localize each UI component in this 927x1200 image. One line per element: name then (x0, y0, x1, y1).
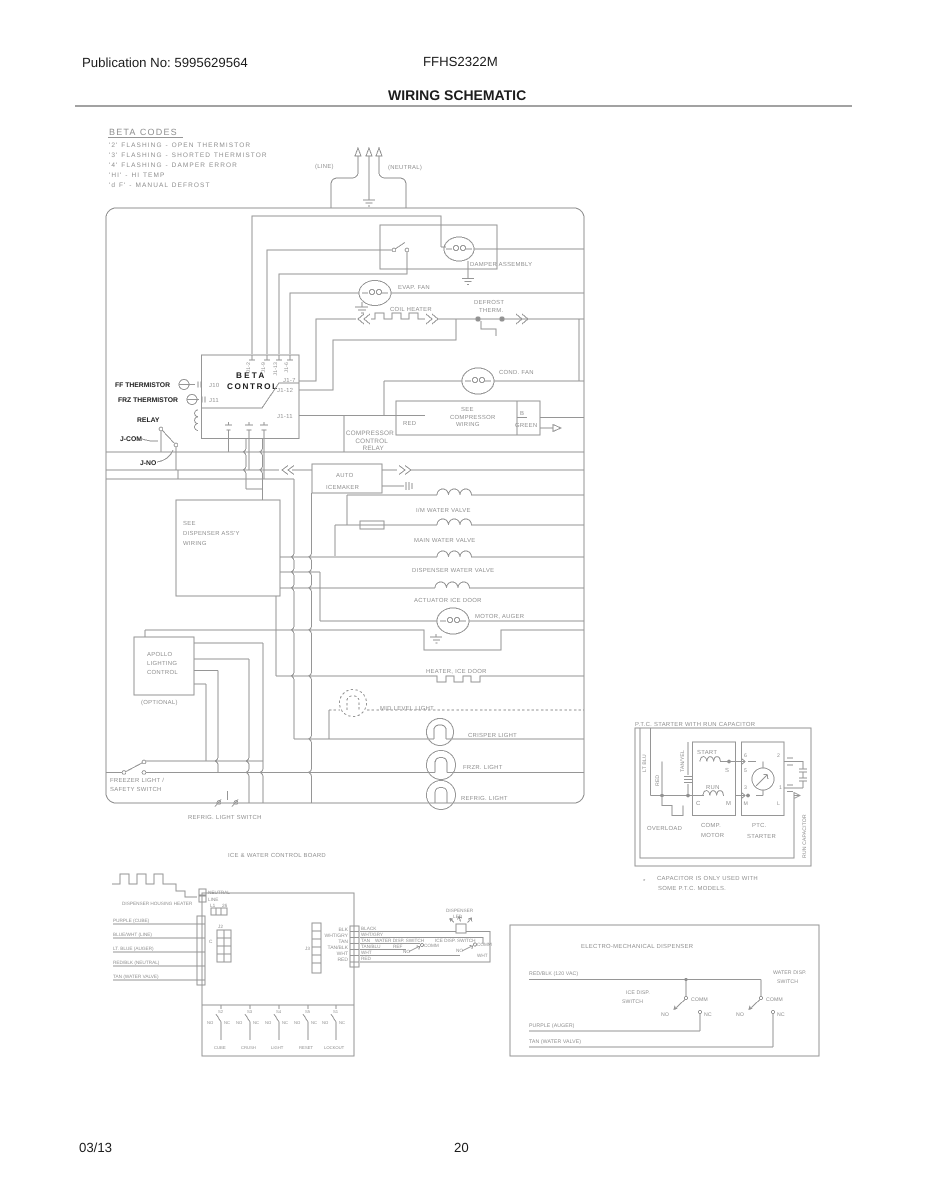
svg-text:NC: NC (777, 1012, 785, 1018)
wire wht (360, 955, 460, 957)
svg-text:NO: NO (294, 1020, 301, 1025)
svg-text:MAIN WATER VALVE: MAIN WATER VALVE (414, 537, 476, 544)
svg-text:ICE DISP. SWITCH: ICE DISP. SWITCH (435, 938, 476, 943)
pin J1-9 (264, 355, 270, 360)
svg-text:*: * (643, 878, 646, 885)
svg-text:COND. FAN: COND. FAN (499, 369, 534, 376)
connector chevrons left of heater (358, 314, 370, 324)
svg-text:SEE: SEE (461, 406, 474, 413)
ground auger (430, 634, 442, 643)
svg-text:LED: LED (453, 914, 463, 919)
wire apollo top feed (144, 630, 146, 637)
svg-text:COMM: COMM (477, 942, 492, 947)
svg-text:PURPLE (CUBE): PURPLE (CUBE) (113, 918, 150, 923)
bus x294 with hops (290, 479, 295, 739)
svg-text:STARTER: STARTER (747, 833, 776, 840)
bus x311 with hops (307, 493, 312, 803)
neutral terminal (199, 889, 206, 895)
svg-text:B: B (520, 410, 524, 417)
cond fan motor (462, 368, 494, 394)
svg-text:P.T.C. STARTER WITH RUN CAPACI: P.T.C. STARTER WITH RUN CAPACITOR (635, 721, 755, 728)
junction dot (684, 978, 687, 981)
wire ptc to cap top (784, 758, 803, 769)
ice disp switch S10 (674, 996, 702, 1013)
svg-text:RUN CAPACITOR: RUN CAPACITOR (802, 814, 808, 858)
svg-text:COMP.: COMP. (701, 822, 721, 829)
freezer light safety switch S6 (106, 760, 146, 774)
wire purple (529, 1014, 700, 1032)
svg-text:NO: NO (322, 1020, 329, 1025)
svg-text:LT. BLUE (AUGER): LT. BLUE (AUGER) (113, 946, 154, 951)
svg-text:LIGHT: LIGHT (271, 1045, 284, 1050)
svg-text:ICEMAKER: ICEMAKER (326, 484, 359, 491)
svg-text:MOTOR, AUGER: MOTOR, AUGER (475, 613, 524, 620)
connector strip J3 mid (312, 923, 321, 973)
svg-text:S5: S5 (305, 1009, 311, 1014)
wire purple (113, 923, 198, 925)
svg-text:NEUTRAL: NEUTRAL (208, 890, 230, 895)
svg-text:RED: RED (655, 775, 661, 786)
junction dots run line (660, 794, 664, 798)
svg-text:S1: S1 (333, 1009, 339, 1014)
svg-text:NC: NC (704, 1012, 712, 1018)
svg-text:'4' FLASHING - DAMPER ERROR: '4' FLASHING - DAMPER ERROR (109, 162, 238, 169)
svg-text:TAN/YEL: TAN/YEL (680, 750, 686, 772)
wire icemaker rail (106, 469, 584, 471)
svg-text:(LINE): (LINE) (315, 163, 334, 170)
svg-text:RED: RED (361, 956, 372, 961)
svg-text:TAN (WATER VALVE): TAN (WATER VALVE) (529, 1039, 581, 1045)
svg-text:J2: J2 (218, 924, 223, 929)
svg-text:BLACK: BLACK (361, 926, 377, 931)
svg-text:(OPTIONAL): (OPTIONAL) (141, 699, 178, 706)
svg-text:C: C (696, 800, 701, 807)
wire red/blk (529, 980, 761, 997)
svg-text:ELECTRO-MECHANICAL DISPENSER: ELECTRO-MECHANICAL DISPENSER (581, 943, 693, 950)
main outer box (106, 208, 584, 803)
svg-text:NC: NC (311, 1020, 317, 1025)
svg-text:L: L (777, 801, 780, 807)
auto icemaker box (312, 464, 382, 493)
svg-text:EVAP. FAN: EVAP. FAN (398, 284, 430, 291)
power plug prongs (355, 148, 382, 168)
leader J-COM (142, 439, 158, 441)
wire ground prong (368, 166, 370, 200)
wire red/blk (113, 965, 198, 967)
wire lt blu vertical (640, 728, 794, 858)
svg-text:J1-13: J1-13 (273, 362, 279, 375)
connector chevrons icemaker right (399, 466, 411, 475)
wire evap fan to right rail (391, 292, 584, 294)
BETA CONTROL box U1 (202, 355, 300, 439)
arrow run cap (794, 793, 800, 799)
defrost thermostat contacts (476, 317, 504, 336)
svg-text:SOME P.T.C. MODELS.: SOME P.T.C. MODELS. (658, 885, 726, 892)
refrig light LP4 (427, 781, 456, 810)
evap fan motor (359, 281, 391, 306)
svg-text:FREEZER LIGHT /: FREEZER LIGHT / (110, 777, 164, 784)
wire rail y479 step (106, 470, 294, 479)
line terminal (199, 896, 206, 902)
FRZ thermistor RT2 (187, 395, 205, 405)
svg-text:COMPRESSOR: COMPRESSOR (346, 430, 394, 437)
wire apollo out2 (194, 658, 249, 660)
main run line (651, 795, 705, 797)
svg-text:CAPACITOR IS ONLY USED WITH: CAPACITOR IS ONLY USED WITH (657, 875, 758, 882)
chevron run (741, 792, 745, 799)
wire tan em (529, 1014, 773, 1048)
dot run line (746, 794, 750, 798)
svg-text:J10: J10 (209, 382, 220, 389)
arrow compressor output (540, 425, 561, 432)
wire tan (113, 979, 198, 981)
run capacitor C1 (799, 769, 807, 788)
svg-text:J1-12: J1-12 (277, 387, 293, 394)
svg-text:Publication No: 5995629564: Publication No: 5995629564 (82, 55, 248, 70)
svg-text:COMM: COMM (424, 943, 439, 948)
wire J1-7 to heater (299, 319, 356, 381)
see dispenser assy wiring box (176, 500, 280, 596)
svg-text:2: 2 (777, 753, 780, 759)
svg-text:'3' FLASHING - SHORTED THERMIS: '3' FLASHING - SHORTED THERMISTOR (109, 152, 268, 159)
refrig light switch S7 (215, 791, 238, 807)
wire damper to right rail (441, 247, 584, 249)
svg-text:6: 6 (744, 753, 747, 759)
wire J1-6 to evap fan (290, 293, 359, 354)
board divider (202, 1004, 354, 1006)
svg-text:DISPENSER WATER VALVE: DISPENSER WATER VALVE (412, 567, 494, 574)
svg-text:RESET: RESET (299, 1045, 313, 1050)
svg-text:NO: NO (236, 1020, 243, 1025)
svg-text:MID LEVEL LIGHT: MID LEVEL LIGHT (380, 705, 434, 712)
internal diagonal wire (202, 383, 299, 408)
svg-text:CRUSH: CRUSH (241, 1045, 256, 1050)
BETA CODES underline (108, 137, 183, 139)
connector chevrons icemaker left (282, 466, 294, 475)
svg-text:L1: L1 (210, 903, 216, 908)
svg-text:'2' FLASHING - OPEN THERMISTOR: '2' FLASHING - OPEN THERMISTOR (109, 142, 251, 149)
svg-text:DISPENSER: DISPENSER (446, 908, 474, 913)
svg-text:FFHS2322M: FFHS2322M (423, 54, 498, 69)
crisper light LP2 (427, 719, 454, 746)
header rule (75, 105, 852, 107)
svg-text:DAMPER ASSEMBLY: DAMPER ASSEMBLY (470, 261, 532, 268)
wire neutral prong to box (379, 166, 406, 208)
frzr light LP3 (427, 751, 456, 780)
svg-text:COIL HEATER: COIL HEATER (390, 306, 432, 313)
wire heater return to J1-12 (299, 319, 456, 390)
svg-text:WIRING: WIRING (183, 540, 207, 547)
svg-text:S3: S3 (247, 1009, 253, 1014)
svg-text:S4: S4 (276, 1009, 282, 1014)
svg-text:CONTROL: CONTROL (227, 382, 279, 391)
wire line prong to box (331, 166, 358, 208)
wire tan/yel with connector (684, 742, 692, 796)
pin J1-13 (276, 355, 282, 360)
svg-text:TAN/BLU: TAN/BLU (361, 944, 381, 949)
wire 246 to 262 (246, 488, 263, 490)
wire auger bypass dip (145, 630, 584, 650)
svg-text:SEE: SEE (183, 520, 196, 527)
svg-text:MOTOR: MOTOR (701, 832, 724, 839)
svg-text:SAFETY SWITCH: SAFETY SWITCH (110, 786, 162, 793)
PTC outer box (635, 728, 811, 866)
svg-text:START: START (697, 749, 717, 756)
svg-text:GREEN: GREEN (515, 422, 537, 429)
svg-text:CONTROL: CONTROL (355, 438, 388, 445)
svg-text:NO: NO (265, 1020, 272, 1025)
water disp switch S9 (462, 943, 477, 951)
defrost heater element (371, 313, 425, 319)
mid level light dashed (329, 690, 584, 717)
svg-text:NC: NC (339, 1020, 345, 1025)
overload protector (662, 796, 683, 816)
svg-text:LOCKOUT: LOCKOUT (324, 1045, 345, 1050)
svg-text:20: 20 (454, 1140, 469, 1155)
svg-text:LINE: LINE (208, 897, 218, 902)
pin J1-1 bottom (225, 422, 232, 452)
ptc starter box (742, 742, 785, 816)
wire dispenser box mid (280, 572, 320, 621)
pin J1-4 bottom (245, 422, 253, 470)
svg-text:SWITCH: SWITCH (622, 999, 643, 1005)
svg-text:J1-11: J1-11 (277, 413, 293, 420)
dispenser housing heater element (112, 874, 197, 897)
svg-text:S: S (725, 767, 729, 774)
wire frzr line (146, 761, 584, 773)
wire apollo out3 (194, 670, 218, 672)
wire lt blue (113, 951, 198, 953)
svg-text:DISPENSER ASS'Y: DISPENSER ASS'Y (183, 530, 240, 537)
svg-text:03/13: 03/13 (79, 1140, 112, 1155)
edge connector strip left (197, 916, 205, 985)
svg-text:1: 1 (779, 785, 782, 791)
wire J1-9 to damper switch (267, 250, 392, 354)
ice disp switch S8 (409, 944, 424, 952)
svg-text:M: M (744, 801, 748, 807)
svg-text:RED: RED (403, 420, 416, 427)
svg-text:COMM: COMM (766, 997, 783, 1003)
svg-text:APOLLO: APOLLO (147, 651, 172, 658)
svg-text:J11: J11 (209, 397, 219, 404)
svg-text:ICE & WATER CONTROL BOARD: ICE & WATER CONTROL BOARD (228, 852, 326, 859)
svg-text:NC: NC (224, 1020, 230, 1025)
ptc disc (748, 762, 774, 796)
svg-text:REFRIG. LIGHT SWITCH: REFRIG. LIGHT SWITCH (188, 814, 262, 821)
BETA CODES legend (109, 127, 268, 189)
bus x246 hops (242, 438, 247, 489)
svg-text:26: 26 (222, 903, 228, 908)
wire rail J1-2 to damper feed (252, 216, 441, 354)
svg-text:NO: NO (661, 1012, 669, 1018)
wire start to ptc (721, 762, 744, 796)
wire blue/wht (113, 937, 198, 939)
ground damper (462, 261, 474, 285)
relay K1 coil (195, 410, 198, 430)
main water valve coil L2 (384, 524, 584, 526)
svg-text:RED/BLK (120 VAC): RED/BLK (120 VAC) (529, 971, 578, 977)
apollo lighting control box (134, 637, 194, 695)
svg-text:WHT: WHT (477, 953, 488, 958)
damper switch (392, 243, 409, 252)
svg-text:NC: NC (282, 1020, 288, 1025)
svg-text:5: 5 (744, 768, 747, 774)
FF thermistor RT1 (179, 380, 201, 390)
I/M water valve coil L1 (347, 495, 584, 525)
svg-text:J1-6: J1-6 (284, 362, 290, 373)
mid light stub (328, 710, 330, 739)
svg-text:RELAY: RELAY (363, 445, 385, 452)
svg-text:'HI' - HI TEMP: 'HI' - HI TEMP (109, 172, 165, 179)
damper motor M1 (444, 237, 474, 261)
wire rail y479 (106, 478, 176, 480)
svg-text:CUBE: CUBE (214, 1045, 226, 1050)
svg-text:NC: NC (253, 1020, 259, 1025)
ground power (363, 200, 375, 206)
wire rail y452 (106, 451, 584, 453)
svg-text:NO: NO (456, 948, 463, 953)
svg-text:DEFROST: DEFROST (474, 299, 504, 306)
electro-mechanical dispenser box (510, 925, 819, 1056)
svg-text:THERM.: THERM. (479, 307, 503, 314)
wire cond fan rail (384, 380, 584, 382)
svg-text:ACTUATOR ICE DOOR: ACTUATOR ICE DOOR (414, 597, 482, 604)
wire green to right rail (517, 417, 584, 419)
start winding (700, 757, 721, 762)
svg-text:CRISPER LIGHT: CRISPER LIGHT (468, 732, 517, 739)
svg-text:HEATER, ICE DOOR: HEATER, ICE DOOR (426, 668, 487, 675)
water disp switch S11 (749, 996, 775, 1013)
svg-text:SWITCH: SWITCH (777, 979, 798, 985)
svg-text:J-NO: J-NO (140, 460, 156, 467)
svg-text:RED/BLK (NEUTRAL): RED/BLK (NEUTRAL) (113, 960, 160, 965)
svg-text:NO: NO (207, 1020, 214, 1025)
fuse main valve (335, 521, 384, 529)
svg-text:WHT/GRY: WHT/GRY (361, 932, 384, 937)
svg-text:DISPENSER HOUSING HEATER: DISPENSER HOUSING HEATER (122, 901, 193, 906)
svg-text:COMPRESSOR: COMPRESSOR (450, 414, 496, 421)
wire J1-11 to compressor relay (299, 381, 425, 452)
wire auger line (320, 620, 584, 622)
label compressor control relay (346, 430, 394, 452)
svg-text:C: C (209, 939, 213, 944)
svg-text:BETA CODES: BETA CODES (109, 127, 178, 137)
svg-text:REFRIG. LIGHT: REFRIG. LIGHT (461, 795, 508, 802)
svg-text:RED: RED (337, 957, 348, 963)
wire red drop (661, 762, 663, 796)
svg-text:NO: NO (736, 1012, 744, 1018)
svg-text:TAN (WATER VALVE): TAN (WATER VALVE) (113, 974, 159, 979)
ground evap fan (355, 302, 368, 313)
wire wht/gry (360, 938, 483, 945)
connector J2 grid (217, 930, 231, 962)
svg-text:'d F' - MANUAL DEFROST: 'd F' - MANUAL DEFROST (109, 182, 211, 189)
actuator ice door coil L4 (280, 587, 584, 589)
wire damper return (279, 252, 407, 354)
damper assembly box (380, 225, 497, 269)
wire labels inside right (324, 927, 348, 963)
svg-text:TAN: TAN (361, 938, 370, 943)
connector chevrons right of heater (426, 314, 438, 324)
wire tan/blu (360, 949, 406, 951)
wire red vertical (650, 728, 652, 796)
svg-text:J1-2: J1-2 (246, 362, 252, 373)
svg-text:PURPLE (AUGER): PURPLE (AUGER) (529, 1023, 575, 1029)
svg-text:AUTO: AUTO (336, 472, 354, 479)
svg-text:WIRING: WIRING (456, 421, 480, 428)
svg-text:LIGHTING: LIGHTING (147, 660, 177, 667)
board box (202, 893, 354, 1056)
motor auger M4 (437, 608, 469, 634)
comp motor box (693, 742, 736, 816)
connector strip right (350, 926, 359, 967)
svg-text:REF: REF (393, 944, 403, 949)
bus x262.5 (J1-5) hops (258, 438, 263, 500)
wire crisper line (294, 738, 584, 740)
pin J1-2 (249, 355, 255, 360)
svg-text:BLUE/WHT (LINE): BLUE/WHT (LINE) (113, 932, 152, 937)
wire apollo out1 (194, 642, 263, 644)
wire defrost to cond fan rail (578, 319, 580, 381)
wire fuse feed (334, 525, 336, 556)
connector chevrons defrost (516, 314, 528, 324)
svg-text:FF THERMISTOR: FF THERMISTOR (115, 382, 170, 389)
svg-text:WATER DISP. SWITCH: WATER DISP. SWITCH (375, 938, 424, 943)
wire black loop (360, 932, 490, 963)
svg-text:LT BLU: LT BLU (642, 754, 648, 772)
svg-text:WIRING SCHEMATIC: WIRING SCHEMATIC (388, 87, 526, 103)
svg-text:I/M WATER VALVE: I/M WATER VALVE (416, 507, 471, 514)
svg-text:COMM: COMM (691, 997, 708, 1003)
heater ice door element (276, 676, 584, 682)
see compressor wiring box (396, 401, 540, 435)
svg-text:RUN: RUN (706, 784, 720, 791)
dispenser LED (450, 917, 472, 934)
svg-text:OVERLOAD: OVERLOAD (647, 825, 682, 832)
wire tan (360, 943, 420, 945)
svg-text:FRZR. LIGHT: FRZR. LIGHT (463, 764, 503, 771)
svg-text:WHT: WHT (361, 950, 372, 955)
svg-text:(NEUTRAL): (NEUTRAL) (388, 164, 422, 171)
wire dispenser box bottom to ice door heater (275, 596, 277, 676)
svg-text:ICE DISP.: ICE DISP. (626, 990, 650, 996)
svg-text:S2: S2 (218, 1009, 224, 1014)
svg-text:PTC.: PTC. (752, 822, 767, 829)
svg-text:J-COM: J-COM (120, 436, 142, 443)
chevron start (741, 758, 745, 765)
svg-text:RELAY: RELAY (137, 417, 160, 424)
svg-text:3: 3 (744, 785, 747, 791)
svg-text:M: M (726, 800, 731, 807)
run winding (703, 791, 724, 796)
svg-text:J1-9: J1-9 (261, 362, 267, 373)
leader J-NO (157, 450, 173, 462)
svg-text:WATER DISP.: WATER DISP. (773, 970, 807, 976)
wire icemaker connector stub (382, 482, 412, 490)
wire apollo out4 (194, 684, 206, 761)
svg-text:CONTROL: CONTROL (147, 669, 178, 676)
dispenser water valve coil L3 (280, 556, 584, 558)
svg-text:FRZ THERMISTOR: FRZ THERMISTOR (118, 397, 178, 404)
wire ptc to cap bottom (784, 785, 803, 792)
pin J1-5 bottom (260, 422, 268, 479)
relay contacts (159, 427, 178, 470)
wire heater to defrost thermostat (438, 318, 584, 320)
svg-text:NO: NO (403, 949, 410, 954)
pin J1-6 (287, 355, 293, 360)
dot start line (727, 760, 731, 764)
svg-text:J3: J3 (305, 946, 310, 951)
